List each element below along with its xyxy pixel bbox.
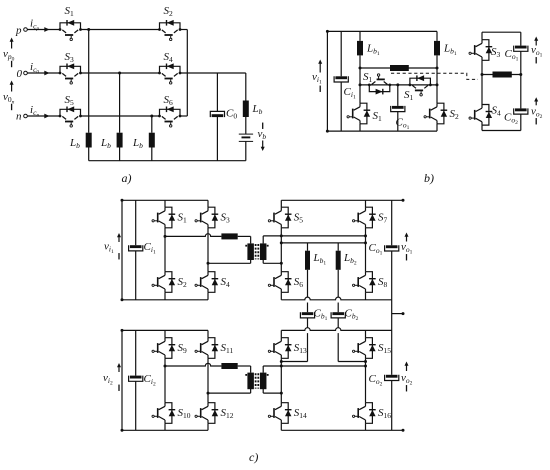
switch S11 bbox=[195, 338, 233, 359]
wire fig c TR bottom rail bbox=[281, 297, 391, 300]
switch S5 bbox=[268, 207, 303, 228]
svg-text:Cb1: Cb1 bbox=[314, 308, 328, 322]
svg-text:S4: S4 bbox=[221, 276, 231, 289]
inductor coupled winding fig b bbox=[390, 65, 409, 71]
wire S15S16 leg bbox=[365, 330, 367, 430]
wire trafo2 secondary top bbox=[263, 365, 367, 373]
wire fig c TL top rail bbox=[122, 199, 208, 201]
svg-text:S7: S7 bbox=[378, 212, 388, 225]
svg-text:Ci2: Ci2 bbox=[144, 373, 156, 387]
voltage v_p0 annotation bbox=[3, 38, 15, 68]
wire fig b right rail bottom bbox=[520, 114, 522, 130]
node junction Co1 top fig b bbox=[396, 83, 399, 86]
wire fig c BR top rail bbox=[281, 328, 391, 331]
voltage v_b annotation bbox=[258, 123, 267, 151]
voltage v_0n annotation bbox=[3, 81, 15, 111]
dashed coupling line fig b bbox=[391, 73, 478, 79]
current arrow i_cp bbox=[30, 18, 50, 32]
wire S11S12 mid to trafo2 bbox=[208, 387, 251, 393]
wire fig c TL left rail bbox=[121, 199, 124, 301]
transformer T2 bbox=[245, 373, 268, 390]
svg-text:S9: S9 bbox=[178, 342, 188, 355]
switch S16 bbox=[353, 403, 392, 424]
voltage v_i2 annotation fig c bbox=[103, 363, 121, 391]
wire trafo1 secondary top bbox=[263, 236, 365, 244]
wire leg1 vertical bbox=[88, 30, 90, 133]
wire fig b right top rail bbox=[482, 31, 521, 33]
wire fig c TR top rail bbox=[281, 199, 404, 202]
svg-text:Lb: Lb bbox=[132, 137, 143, 150]
svg-text:S11: S11 bbox=[221, 342, 234, 355]
wire fig c TL bottom rail bbox=[122, 299, 208, 301]
wire Lb1 left leg top bbox=[359, 31, 361, 41]
wire Lb1 top lead bbox=[307, 243, 309, 251]
node S5S6 line1 bbox=[280, 234, 283, 237]
wire Lb1 right leg mid bbox=[436, 55, 439, 86]
wire p input bbox=[27, 29, 60, 31]
wire S1 leads fig b bbox=[359, 85, 361, 131]
switch S1 fig b bbox=[347, 103, 382, 124]
inductor output winding fig b bbox=[493, 72, 512, 78]
inductor Lb leg1 bbox=[69, 133, 92, 150]
transformer T1 bbox=[245, 243, 268, 260]
svg-text:Lb1: Lb1 bbox=[366, 43, 380, 57]
wire S5S6 leg bbox=[280, 200, 282, 299]
wire Ci2 leg bottom bbox=[135, 381, 137, 430]
capacitor C0 bbox=[210, 108, 237, 121]
svg-text:Lb2: Lb2 bbox=[343, 252, 357, 266]
wire fig b top rail bbox=[327, 30, 437, 32]
wire output rail bottom bbox=[391, 381, 393, 431]
wire coupled inductor line fig b bbox=[360, 67, 437, 69]
wire leg3 bottom bbox=[151, 148, 153, 161]
node S3S4 midpoint bbox=[207, 262, 210, 265]
svg-text:S15: S15 bbox=[378, 342, 391, 355]
battery vb bbox=[239, 134, 253, 141]
svg-text:Co2: Co2 bbox=[369, 373, 383, 387]
node junction n leg3 bbox=[150, 115, 153, 118]
wire p row mid bbox=[81, 29, 160, 31]
wire Cb2 to S15 node bbox=[338, 318, 367, 363]
switch S3 fig b bbox=[469, 40, 501, 61]
node S1S2 midpoint bbox=[164, 235, 167, 238]
svg-text:S12: S12 bbox=[221, 407, 234, 420]
wire S9S10 leg bbox=[164, 330, 166, 430]
svg-text:Ci1: Ci1 bbox=[344, 86, 356, 100]
wire Lb1 to Cb1 bbox=[307, 270, 309, 312]
svg-text:Lb: Lb bbox=[252, 103, 263, 116]
wire output mid terminal bbox=[392, 312, 405, 315]
wire leg3 vertical bbox=[151, 116, 153, 133]
wire S13S14 leg bbox=[280, 330, 282, 430]
wire S3S4 leg bbox=[207, 200, 209, 299]
capacitor Cb2 bbox=[331, 308, 358, 322]
wire Co1 leg top fig b bbox=[397, 85, 399, 106]
wire bottom rail fig a bbox=[89, 160, 246, 162]
svg-text:Cb2: Cb2 bbox=[345, 308, 359, 322]
switch S3 bbox=[195, 207, 230, 228]
svg-text:S3: S3 bbox=[491, 46, 501, 59]
svg-text:S6: S6 bbox=[294, 276, 304, 289]
wire Ci1 leg top fig c bbox=[135, 200, 137, 245]
wire fig b bottom rail bbox=[327, 130, 437, 132]
node S9S10 midpoint bbox=[164, 365, 167, 368]
inductor Lb1 left fig b bbox=[357, 41, 380, 57]
wire C0 leg bottom bbox=[216, 117, 218, 161]
voltage v_i1 annotation fig b bbox=[312, 60, 322, 92]
switch S1 bbox=[152, 207, 187, 228]
wire 0 row right bbox=[180, 72, 246, 74]
capacitor Co2 right fig b bbox=[504, 108, 528, 126]
switch S8 bbox=[353, 272, 388, 293]
svg-text:v0n: v0n bbox=[3, 91, 15, 105]
switch S1 bbox=[59, 5, 82, 41]
caption a) bbox=[122, 171, 132, 185]
svg-text:Lb1: Lb1 bbox=[443, 43, 457, 57]
switch S12 bbox=[195, 403, 234, 424]
svg-text:c): c) bbox=[249, 450, 258, 464]
svg-text:S5: S5 bbox=[65, 94, 75, 107]
wire S1S2 leg bbox=[164, 200, 166, 299]
svg-text:S1: S1 bbox=[373, 110, 383, 123]
wire S1S2 mid to inductor bbox=[165, 234, 221, 237]
wire fig b right rail top bbox=[520, 32, 522, 45]
wire line2 fig c top bbox=[280, 241, 367, 244]
svg-text:vi1: vi1 bbox=[312, 71, 322, 85]
svg-text:S5: S5 bbox=[294, 212, 304, 225]
capacitor Ci1 fig b bbox=[334, 76, 356, 100]
svg-text:S14: S14 bbox=[294, 407, 307, 420]
wire n input bbox=[27, 115, 60, 117]
svg-text:S13: S13 bbox=[294, 342, 307, 355]
svg-text:S1: S1 bbox=[363, 71, 373, 84]
svg-text:Lb: Lb bbox=[69, 137, 80, 150]
caption c) bbox=[249, 450, 258, 464]
switch S13 bbox=[268, 338, 307, 359]
switch S1bar lower fig b bbox=[404, 75, 432, 102]
switch S5 bbox=[59, 94, 82, 127]
svg-text:S3: S3 bbox=[65, 51, 75, 64]
wire fig b mid row bbox=[481, 73, 523, 76]
capacitor Co1 right fig b bbox=[505, 46, 528, 63]
wire S9S10 mid to inductor bbox=[165, 363, 221, 366]
svg-text:n: n bbox=[16, 111, 22, 123]
wire n row right bbox=[180, 115, 187, 117]
switch S2 fig b bbox=[424, 103, 459, 124]
wire fig c BL top rail bbox=[122, 329, 208, 331]
wire right column vertical bbox=[186, 30, 188, 117]
svg-text:Lb1: Lb1 bbox=[313, 252, 327, 266]
wire output rail top bbox=[391, 200, 393, 245]
svg-text:S3: S3 bbox=[221, 212, 231, 225]
wire fig b right rail mid bbox=[520, 51, 522, 108]
wire inductor to trafo2 bbox=[238, 366, 251, 373]
switch S7 bbox=[353, 207, 388, 228]
node p input terminal bbox=[15, 25, 27, 37]
inductor Lb battery leg bbox=[243, 101, 263, 118]
voltage v_o1 annotation fig b bbox=[531, 37, 543, 64]
switch S10 bbox=[152, 403, 191, 424]
node S7S8 line1 bbox=[364, 234, 367, 237]
voltage v_o2 annotation fig c bbox=[401, 362, 413, 392]
wire n row mid bbox=[81, 115, 160, 117]
inductor primary fig c bottom bbox=[221, 363, 237, 369]
switch S4 fig b bbox=[469, 105, 501, 126]
switch S4 bbox=[195, 272, 230, 293]
svg-text:S2: S2 bbox=[164, 5, 174, 18]
wire 0 input bbox=[27, 72, 60, 74]
node S11S12 midpoint bbox=[207, 392, 210, 395]
inductor primary fig c top bbox=[221, 233, 237, 239]
switch S15 bbox=[353, 338, 392, 359]
capacitor Ci2 fig c bbox=[129, 373, 156, 387]
wire trafo1 secondary bottom bbox=[263, 258, 283, 265]
capacitor Co2 fig c bbox=[369, 373, 399, 387]
inductor Lb leg2 bbox=[100, 133, 123, 150]
switch S3 bbox=[59, 51, 82, 84]
wire fig c BL bottom rail bbox=[122, 429, 208, 431]
svg-text:vo1: vo1 bbox=[401, 241, 413, 255]
wire Ci1 leg bottom fig c bbox=[135, 251, 137, 300]
svg-text:Lb: Lb bbox=[100, 137, 111, 150]
svg-text:vo2: vo2 bbox=[401, 372, 413, 386]
node 0 input terminal bbox=[17, 68, 28, 80]
svg-text:S1: S1 bbox=[404, 89, 414, 102]
wire leg2 vertical bbox=[119, 73, 121, 133]
switch S9 bbox=[152, 338, 187, 359]
capacitor Co1 fig b bbox=[391, 106, 410, 131]
wire Co1 leg bottom fig b bbox=[397, 112, 399, 132]
svg-text:S1: S1 bbox=[65, 5, 75, 18]
svg-text:S4: S4 bbox=[492, 105, 502, 118]
svg-text:C0: C0 bbox=[226, 108, 237, 121]
svg-text:vo1: vo1 bbox=[531, 44, 543, 58]
svg-text:S2: S2 bbox=[450, 108, 460, 121]
switch S4 bbox=[158, 51, 181, 84]
svg-text:vi1: vi1 bbox=[104, 241, 114, 255]
svg-text:S1: S1 bbox=[178, 212, 188, 225]
switch S14 bbox=[268, 403, 307, 424]
capacitor Cb1 bbox=[300, 308, 327, 322]
wire C0 leg top bbox=[216, 73, 218, 111]
svg-text:Co1: Co1 bbox=[369, 242, 383, 256]
wire output rail mid bbox=[391, 251, 393, 375]
svg-text:b): b) bbox=[424, 171, 434, 185]
wire 0 row mid bbox=[81, 72, 160, 74]
node junction 0 leg2 bbox=[118, 72, 121, 75]
svg-text:p: p bbox=[15, 25, 22, 37]
svg-text:vi2: vi2 bbox=[103, 372, 113, 386]
wire fig c BR bottom rail bbox=[281, 429, 404, 432]
svg-text:S2: S2 bbox=[178, 276, 188, 289]
wire leg1 bottom bbox=[88, 148, 90, 161]
current arrow i_c0 bbox=[30, 61, 50, 75]
inductor Lb2 fig c bbox=[336, 251, 357, 270]
wire Lb2 top lead bbox=[337, 243, 339, 251]
wire Ci2 leg top bbox=[135, 330, 137, 375]
svg-text:vp0: vp0 bbox=[3, 48, 15, 62]
capacitor Ci1 fig c bbox=[129, 241, 156, 255]
wire S2 leads fig b bbox=[436, 85, 438, 131]
inductor Lb1 right fig b bbox=[434, 41, 457, 57]
svg-text:Ci1: Ci1 bbox=[144, 241, 156, 255]
wire fig b left rail bbox=[326, 30, 329, 133]
wire S7S8 leg bbox=[365, 200, 367, 299]
svg-text:Co1: Co1 bbox=[505, 48, 519, 62]
wire battery leg mid bbox=[245, 117, 247, 134]
svg-text:S16: S16 bbox=[378, 407, 391, 420]
wire switch row fig b bbox=[359, 83, 438, 86]
inductor Lb leg3 bbox=[132, 133, 155, 150]
switch S6 bbox=[158, 94, 181, 127]
svg-text:S4: S4 bbox=[164, 51, 174, 64]
capacitor Co1 fig c bbox=[369, 242, 399, 256]
switch S6 bbox=[268, 272, 303, 293]
wire inductor to trafo1 bbox=[238, 236, 251, 243]
node junction p leg1 bbox=[87, 28, 90, 31]
wire S11S12 leg bbox=[207, 330, 209, 430]
wire S3S4 leg fig b bbox=[481, 32, 483, 130]
switch S2 bbox=[158, 5, 181, 41]
wire leg2 bottom bbox=[119, 148, 121, 161]
svg-text:S6: S6 bbox=[164, 94, 174, 107]
svg-text:a): a) bbox=[122, 171, 132, 185]
current arrow i_cn bbox=[30, 104, 50, 118]
svg-text:0: 0 bbox=[17, 68, 23, 80]
wire Cb1 to S13 node bbox=[280, 318, 308, 363]
wire Lb1 left leg mid bbox=[359, 55, 362, 85]
voltage v_o2 annotation fig b bbox=[531, 97, 543, 124]
node n input terminal bbox=[16, 111, 27, 123]
svg-text:vb: vb bbox=[258, 128, 267, 141]
voltage v_i1 annotation fig c bbox=[104, 233, 121, 259]
switch S2 bbox=[152, 272, 187, 293]
wire Lb2 to Cb2 bbox=[337, 270, 339, 312]
wire trafo2 secondary bottom bbox=[263, 387, 283, 394]
svg-text:S8: S8 bbox=[378, 276, 388, 289]
wire p row right bbox=[180, 29, 187, 31]
wire Ci1 leg bottom fig b bbox=[340, 82, 342, 131]
wire fig b right bottom rail bbox=[482, 130, 521, 132]
wire Ci1 leg top fig b bbox=[340, 31, 342, 76]
voltage v_o1 annotation fig c bbox=[401, 233, 413, 261]
wire fig c BL left rail bbox=[121, 329, 124, 432]
wire battery leg top bbox=[245, 73, 247, 101]
svg-text:S10: S10 bbox=[178, 407, 191, 420]
wire S3S4 mid to trafo1 bbox=[208, 258, 251, 263]
caption b) bbox=[424, 171, 434, 185]
svg-text:vo2: vo2 bbox=[531, 106, 543, 120]
inductor Lb1 fig c bbox=[305, 251, 326, 270]
switch S1bar upper fig b bbox=[363, 71, 391, 95]
wire battery leg bottom bbox=[245, 142, 247, 161]
wire Lb1 right leg top bbox=[436, 31, 438, 41]
